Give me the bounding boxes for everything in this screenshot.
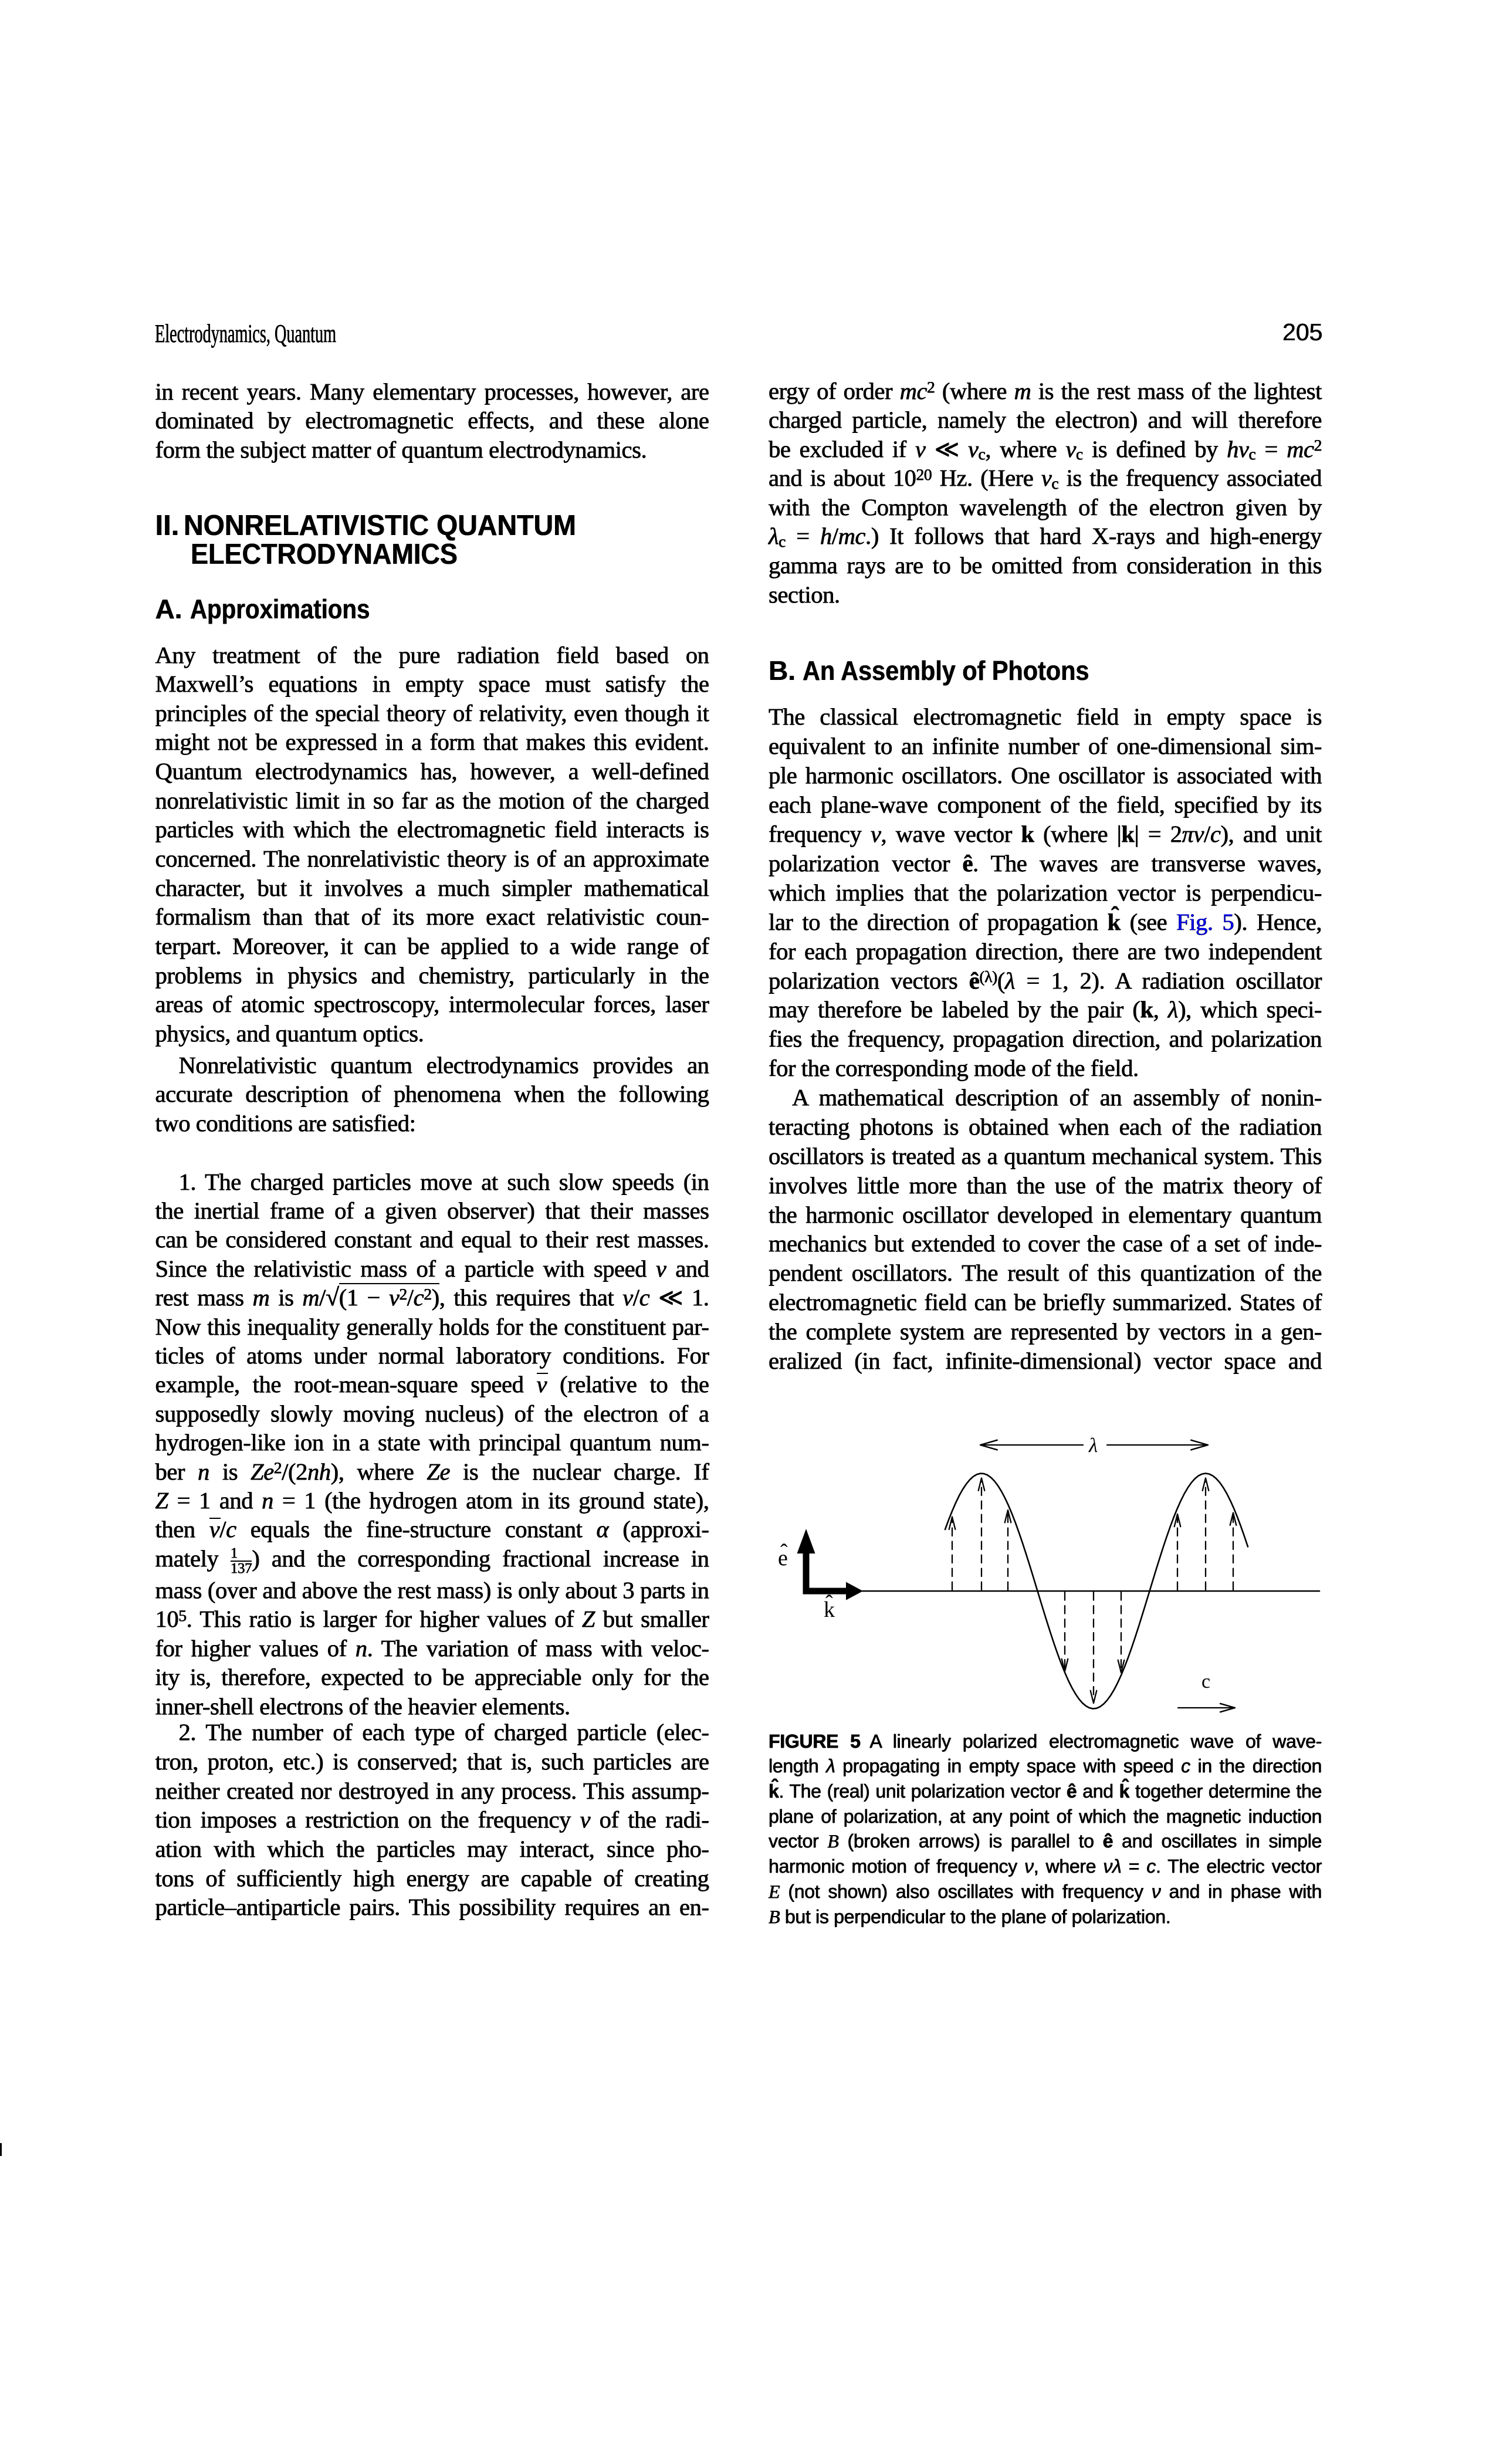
dashed B arrows crest 2 bbox=[1175, 1478, 1237, 1590]
heading II roman numeral bbox=[155, 512, 180, 540]
unit vector k axis arrow bbox=[803, 1588, 848, 1595]
label k hat bbox=[824, 1597, 835, 1623]
label c bbox=[1201, 1671, 1210, 1693]
heading B label bbox=[769, 657, 796, 684]
heading B text bbox=[803, 657, 1089, 684]
label e hat bbox=[778, 1545, 788, 1571]
edge artifact mark bbox=[0, 2143, 2, 2156]
page number 205 bbox=[1282, 320, 1322, 344]
FIGURE 5 drawing bbox=[757, 1402, 1361, 1731]
paragraph: The classical bbox=[769, 702, 1322, 1083]
paragraph: Any treatment bbox=[155, 641, 709, 1048]
dashed B arrows crest 1 bbox=[949, 1478, 1011, 1590]
heading II line 1 bbox=[184, 512, 576, 540]
paragraph: ergy of order bbox=[769, 377, 1322, 610]
propagation axis line bbox=[862, 1590, 1319, 1592]
paragraph: Nonrelativistic provides bbox=[155, 1051, 709, 1138]
speed c arrow bbox=[1178, 1707, 1232, 1708]
figure caption bbox=[769, 1729, 1322, 1930]
lambda dimension arrow bbox=[982, 1444, 1206, 1446]
heading A text bbox=[190, 595, 370, 622]
heading II line 2 bbox=[191, 540, 458, 569]
unit vector e axis arrow bbox=[803, 1552, 810, 1595]
item 2 bbox=[155, 1718, 709, 1922]
heading A label bbox=[155, 595, 182, 622]
dashed B arrows trough bbox=[1062, 1592, 1125, 1703]
label lambda bbox=[1089, 1434, 1098, 1457]
sine wave bbox=[945, 1474, 1248, 1709]
paragraph: in recent years bbox=[155, 377, 709, 465]
running head bbox=[155, 321, 336, 347]
item 1 bbox=[155, 1167, 709, 1721]
paragraph: A mathematical bbox=[769, 1083, 1322, 1376]
